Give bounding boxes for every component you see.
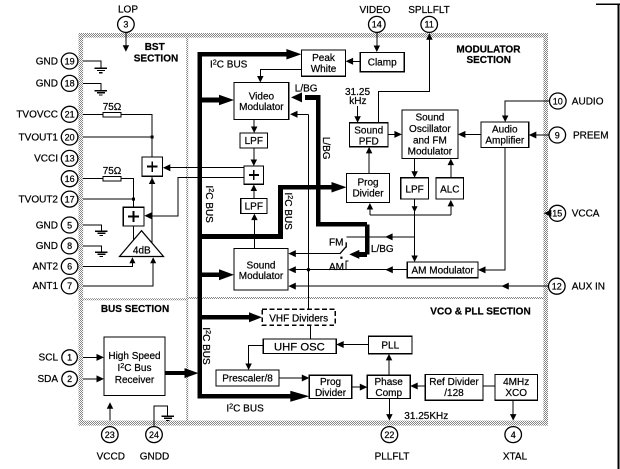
pin 1 SCL	[62, 350, 78, 365]
wire Prescaler to Prog Divider PLL	[279, 377, 304, 379]
svg-text:GND: GND	[36, 241, 58, 252]
wire pin 7 ANT1 to amplifier	[83, 262, 153, 286]
svg-text:Sound: Sound	[415, 113, 444, 124]
svg-text:LPF: LPF	[405, 184, 423, 195]
adder A1	[142, 157, 163, 176]
wire Audio Amplifier to AM Modulator	[484, 148, 505, 270]
svg-text:2: 2	[67, 374, 72, 384]
svg-text:UHF OSC: UHF OSC	[274, 341, 325, 353]
svg-text:9: 9	[555, 130, 560, 140]
svg-text:SECTION: SECTION	[466, 55, 510, 66]
svg-text:8: 8	[67, 241, 72, 251]
svg-text:L/BG: L/BG	[320, 137, 331, 160]
wire pin 12 AUX IN to Sound Modulator	[295, 285, 548, 287]
wire resistor R1 to adder node	[121, 115, 152, 157]
wire pin 1 SCL to receiver	[83, 356, 97, 358]
switch lever	[340, 247, 346, 254]
svg-text:12: 12	[552, 282, 562, 292]
svg-text:ALC: ALC	[440, 184, 459, 195]
wire adder A3 to adder A2	[152, 178, 244, 216]
wire receiver output to I2C bus	[165, 371, 186, 375]
resistor R1 75 ohm	[103, 112, 121, 117]
wire LPF V1 to adder A3	[253, 148, 255, 161]
svg-text:SCL: SCL	[39, 353, 59, 364]
pin 9 PREEM	[549, 127, 566, 143]
block VHF Dividers (dashed)	[262, 309, 335, 325]
block Video Modulator	[234, 83, 289, 120]
wire XCO to Ref Divider	[483, 385, 495, 387]
svg-text:SDA: SDA	[37, 374, 58, 385]
svg-text:SECTION: SECTION	[134, 53, 178, 64]
svg-text:31.25KHz: 31.25KHz	[404, 411, 448, 422]
adder A2	[123, 207, 144, 226]
svg-text:TVOUT2: TVOUT2	[19, 194, 59, 205]
ground symbol pin 19	[95, 67, 107, 69]
wire Ref Divider to Phase Comp	[416, 385, 425, 387]
wire pin 15 VCCA stub	[549, 212, 551, 214]
pin 2 SDA	[62, 371, 78, 386]
svg-text:23: 23	[105, 430, 115, 440]
svg-text:Prog: Prog	[357, 177, 378, 188]
pin 13 VCCI	[61, 150, 78, 166]
svg-text:GND: GND	[36, 56, 58, 67]
block Clamp	[360, 52, 404, 71]
block Sound Oscillator and FM Modulator	[402, 110, 458, 158]
svg-text:Audio: Audio	[492, 125, 518, 136]
svg-text:11: 11	[425, 20, 434, 30]
svg-text:High Speed: High Speed	[108, 351, 160, 362]
block LPF S2	[401, 178, 429, 199]
pin 15 VCCA	[549, 205, 566, 221]
svg-text:Divider: Divider	[352, 189, 384, 200]
block UHF OSC	[263, 339, 336, 354]
wire pin 8 to ground	[83, 246, 101, 252]
wire pin 14 VIDEO to Clamp	[376, 33, 378, 47]
pin 4 XTAL	[505, 427, 522, 443]
svg-text:VCCA: VCCA	[572, 209, 600, 220]
page border rule	[617, 4, 619, 469]
svg-text:Comp: Comp	[375, 388, 402, 399]
block Sound PFD	[349, 123, 388, 147]
wire Sound PFD to Sound Oscillator	[388, 133, 396, 135]
svg-text:75Ω: 75Ω	[103, 102, 122, 113]
svg-text:13: 13	[65, 154, 75, 164]
svg-text:18: 18	[65, 79, 75, 89]
pin 6 ANT2	[61, 258, 78, 274]
svg-text:15: 15	[552, 209, 562, 219]
wire RF carrier to Video Modulator right input	[296, 113, 308, 115]
svg-text:4MHz: 4MHz	[503, 377, 529, 388]
wire LPF S2 feedback to Prog Divider and ALC	[414, 199, 416, 215]
block PLL	[369, 336, 413, 353]
svg-text:Sound: Sound	[247, 261, 276, 272]
svg-text:24: 24	[149, 430, 159, 440]
svg-text:AUX IN: AUX IN	[572, 282, 605, 293]
I2C bus branch to Video Modulator	[202, 98, 221, 103]
svg-text:VIDEO: VIDEO	[359, 5, 390, 16]
pin 18 GND	[61, 75, 78, 91]
wire pin 16 to resistor	[83, 178, 103, 180]
wire pin 20 TVOUT1	[83, 136, 152, 138]
svg-text:GNDD: GNDD	[140, 451, 169, 462]
svg-text:VCCD: VCCD	[97, 451, 125, 462]
wire ALC to Sound Oscillator	[450, 164, 452, 178]
svg-text:19: 19	[65, 56, 75, 66]
block ALC	[436, 178, 464, 199]
svg-text:ANT2: ANT2	[32, 262, 58, 273]
svg-text:ANT1: ANT1	[32, 281, 58, 292]
wire Audio Amplifier to Sound Oscillator	[464, 133, 481, 135]
svg-text:Prescaler/8: Prescaler/8	[222, 374, 273, 385]
I2C bus branch to Peak White	[197, 52, 288, 57]
wire pin 9 PREEM to Audio Amplifier	[535, 134, 549, 136]
svg-text:Modulator: Modulator	[239, 102, 284, 113]
svg-text:Sound: Sound	[354, 125, 383, 136]
label I2C BUS vertical B	[282, 193, 295, 231]
wire Phase Comp to PLL	[388, 359, 390, 375]
pin 20 TVOUT1	[61, 129, 78, 145]
svg-text:FM: FM	[329, 237, 343, 248]
wire AM line node down to VHF Dividers	[307, 270, 309, 310]
pin 22 PLLFLT	[381, 427, 398, 443]
svg-text:VHF Dividers: VHF Dividers	[269, 313, 328, 324]
svg-text:Prog: Prog	[320, 377, 341, 388]
wire pin 21 to resistor	[83, 114, 103, 116]
I2C bus branch to Sound Modulator	[202, 272, 221, 277]
svg-text:PLLFLT: PLLFLT	[375, 451, 410, 462]
svg-text:Peak: Peak	[312, 53, 336, 64]
svg-text:75Ω: 75Ω	[103, 166, 122, 177]
svg-text:AUDIO: AUDIO	[572, 96, 604, 107]
label I2C BUS vertical C	[200, 327, 213, 365]
wire pin 23 VCCD into receiver	[109, 408, 111, 421]
I2C bus branch corner to Prog Divider (sound)	[197, 234, 280, 239]
I2C bus branch to Prog Divider (PLL)	[197, 394, 292, 399]
I2C bus main vertical	[197, 52, 202, 399]
block Prescaler/8	[216, 370, 279, 386]
wire Peak White to Video Modulator	[260, 69, 301, 76]
block Audio Amplifier	[481, 122, 529, 148]
svg-text:AM: AM	[329, 262, 344, 273]
svg-text:PLL: PLL	[381, 340, 399, 351]
I2C bus branch to VHF Dividers	[202, 315, 249, 320]
svg-text:17: 17	[65, 194, 75, 204]
wire adder A2 output down to amplifier	[133, 226, 135, 241]
wire pin 3 LOP into BST section	[125, 33, 127, 47]
svg-text:L/BG: L/BG	[295, 84, 318, 95]
svg-text:XCO: XCO	[505, 388, 527, 399]
svg-text:10: 10	[553, 96, 563, 106]
svg-text:4: 4	[511, 430, 516, 440]
svg-text:1: 1	[67, 353, 72, 363]
wire pin 2 SDA to receiver	[83, 378, 97, 380]
block 4MHz XCO	[495, 374, 537, 400]
block Peak White	[301, 50, 345, 76]
block Prog Divider (PLL)	[309, 375, 352, 398]
wire adder A1 output down to amplifier	[151, 176, 153, 243]
junction dot TVOUT1	[151, 136, 154, 139]
wire pin 17 TVOUT2 to adder A2	[83, 198, 134, 200]
svg-text:LPF: LPF	[245, 202, 263, 213]
wire Sound PFD to pin 11 SPLLFLT	[379, 39, 430, 123]
svg-text:LOP: LOP	[118, 5, 138, 16]
wire pin 5 to ground	[83, 225, 101, 231]
wire pin 18 to ground	[83, 83, 101, 90]
svg-text:Phase: Phase	[375, 377, 404, 388]
section divider vertical	[186, 38, 188, 421]
wire Prog Divider S to Sound PFD	[368, 152, 370, 173]
wire UHF OSC to Prescaler	[249, 345, 264, 364]
svg-text:kHz: kHz	[349, 96, 366, 107]
wire 31.25 kHz into Sound PFD	[357, 106, 359, 117]
wire FM contact line	[346, 236, 414, 238]
svg-text:4dB: 4dB	[133, 246, 151, 257]
section divider horizontal left (BST/BUS)	[83, 298, 186, 300]
svg-text:AM Modulator: AM Modulator	[411, 266, 474, 277]
wire Sound Oscillator to LPF S2	[414, 158, 416, 172]
svg-text:GND: GND	[36, 220, 58, 231]
amplifier 4dB	[120, 231, 164, 257]
svg-text:and FM: and FM	[413, 135, 447, 146]
block Prog Divider (sound)	[347, 173, 390, 202]
svg-text:TVOUT1: TVOUT1	[19, 132, 59, 143]
label L/BG vertical	[320, 137, 331, 160]
resistor R2 75 ohm	[103, 176, 121, 181]
svg-text:20: 20	[65, 132, 75, 142]
pin 21 TVOVCC	[61, 106, 78, 122]
svg-text:Clamp: Clamp	[368, 57, 397, 68]
svg-text:Oscillator: Oscillator	[409, 124, 451, 135]
adder A3	[244, 166, 264, 184]
pin 10 AUDIO	[550, 93, 567, 109]
wire Sound Modulator to LPF S1	[253, 219, 255, 248]
svg-text:XTAL: XTAL	[503, 451, 528, 462]
block High Speed I2C Bus Receiver	[104, 337, 165, 395]
svg-text:LPF: LPF	[245, 136, 263, 147]
svg-text:16: 16	[65, 174, 75, 184]
pin 14 VIDEO	[369, 16, 386, 32]
wire VHF Dividers to UHF OSC	[310, 325, 312, 339]
ground symbol pin 5	[95, 230, 107, 232]
svg-text:Divider: Divider	[315, 388, 347, 399]
svg-text:6: 6	[67, 262, 72, 272]
block Ref Divider /128	[425, 374, 483, 400]
block Phase Comp	[367, 375, 410, 398]
svg-text:Amplifier: Amplifier	[485, 136, 525, 147]
wire adder A3 to adder A1	[170, 167, 244, 169]
block LPF V1	[240, 133, 268, 148]
block AM Modulator	[407, 262, 478, 278]
wire LPF S1 to adder A3	[253, 190, 255, 198]
svg-text:PFD: PFD	[359, 136, 379, 147]
IC boundary hatched frame	[79, 33, 549, 426]
ground symbol GNDD	[162, 415, 174, 417]
svg-text:VCCI: VCCI	[34, 154, 58, 165]
wire AM Modulator to Sound Modulator	[346, 269, 407, 271]
ground symbol pin 8	[95, 251, 107, 253]
svg-text:/128: /128	[444, 388, 464, 399]
L/BG select line (thick) to Video Modulator and FM/AM switch	[316, 95, 321, 227]
wire Phase Comp to pin 22 PLLFLT	[388, 398, 390, 415]
wire RF carrier vertical (to VHF dividers)	[307, 114, 309, 269]
section divider horizontal right (MODULATOR/VCO)	[188, 297, 543, 299]
svg-text:GND: GND	[36, 79, 58, 90]
svg-text:SPLLFLT: SPLLFLT	[408, 5, 450, 16]
wire Prog Divider to Phase Comp	[352, 386, 362, 388]
wire pin 19 to ground	[83, 61, 101, 68]
svg-text:White: White	[311, 64, 337, 75]
pin 17 TVOUT2	[61, 191, 78, 207]
pin 23 VCCD	[102, 427, 119, 443]
svg-text:21: 21	[65, 110, 75, 120]
svg-text:5: 5	[67, 220, 72, 230]
svg-text:14: 14	[372, 20, 382, 30]
pin 19 GND	[61, 53, 78, 69]
wire resistor R2 to TVOUT2 node	[121, 179, 134, 199]
wire pin 6 ANT2 to amplifier	[83, 262, 132, 266]
wire FM carrier down to AM Modulator	[414, 215, 416, 257]
wire Video Modulator to LPF V1	[253, 120, 255, 128]
wire pin 10 AUDIO to Audio Amplifier	[505, 101, 549, 117]
svg-text:BUS SECTION: BUS SECTION	[101, 304, 169, 315]
svg-text:PREEM: PREEM	[573, 130, 609, 141]
pin 11 SPLLFLT	[421, 16, 438, 32]
pin 8 GND	[61, 238, 78, 254]
block LPF S1	[241, 198, 267, 213]
pin 12 AUX IN	[549, 278, 566, 294]
label I2C BUS vertical A	[203, 186, 216, 224]
svg-text:BST: BST	[145, 42, 165, 53]
wire Clamp to Peak White	[352, 60, 360, 62]
svg-text:MODULATOR: MODULATOR	[456, 44, 521, 55]
pin 16	[61, 171, 78, 187]
svg-text:3: 3	[123, 20, 128, 30]
svg-text:7: 7	[67, 281, 72, 291]
pin 5 GND	[61, 217, 78, 233]
wire PLL to UHF OSC	[344, 344, 369, 346]
svg-text:Ref Divider: Ref Divider	[429, 377, 479, 388]
block Sound Modulator	[234, 248, 288, 290]
wire XCO to pin 4 XTAL	[512, 400, 514, 415]
junction dot TVOUT2	[132, 198, 135, 201]
svg-text:Modulator: Modulator	[239, 271, 284, 282]
wire switch pole to Sound Modulator	[295, 253, 340, 255]
svg-text:22: 22	[384, 430, 394, 440]
svg-text:Modulator: Modulator	[408, 147, 453, 158]
ground symbol pin 18	[95, 90, 107, 92]
junction dot AM line	[307, 268, 310, 271]
pin 7 ANT1	[61, 278, 78, 294]
wire pin 24 GNDD to ground	[154, 406, 168, 426]
svg-text:TVOVCC: TVOVCC	[16, 110, 58, 121]
switch AM contact bracket	[346, 261, 349, 270]
svg-text:L/BG: L/BG	[371, 244, 394, 255]
pin 3 LOP	[118, 16, 135, 32]
svg-text:VCO & PLL SECTION: VCO & PLL SECTION	[430, 306, 530, 317]
switch FM contact	[345, 242, 347, 247]
svg-text:Receiver: Receiver	[115, 375, 155, 386]
pin 24 GNDD	[146, 427, 163, 443]
